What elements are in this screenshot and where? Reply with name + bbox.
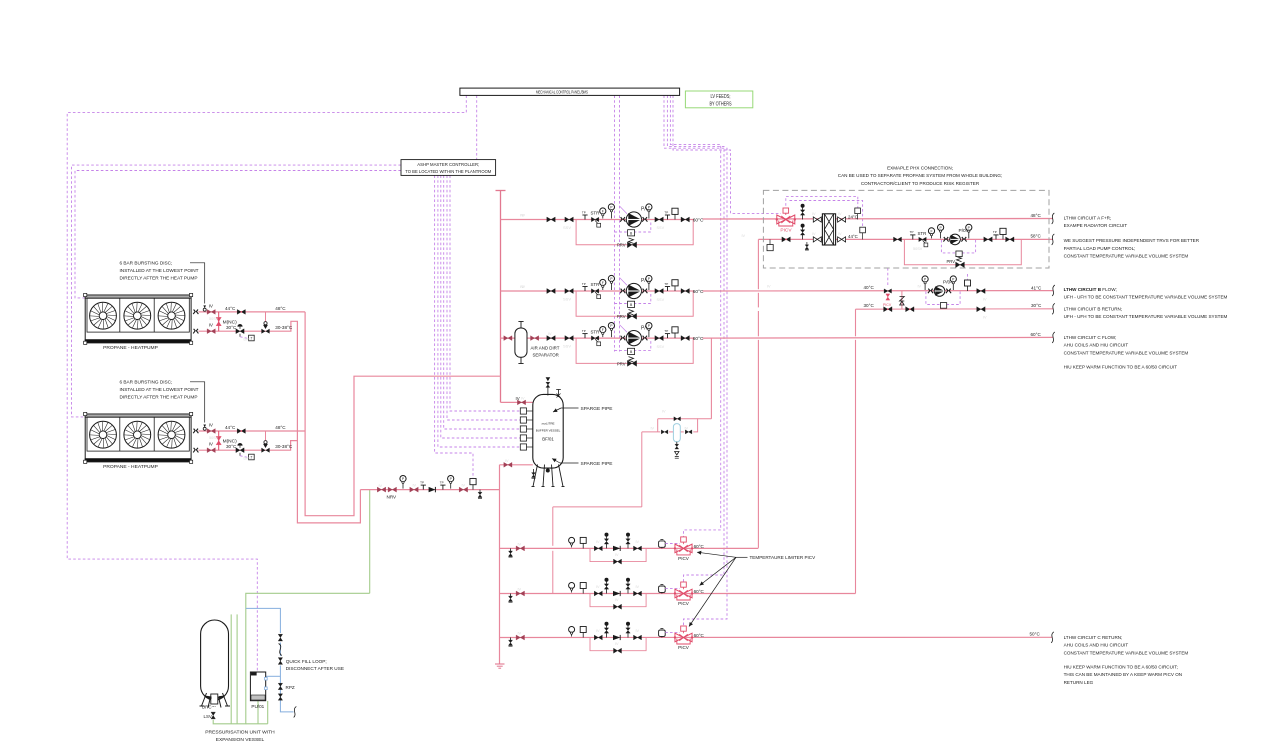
svg-text:24°C: 24°C	[848, 214, 858, 219]
svg-text:60°C: 60°C	[694, 589, 705, 594]
svg-text:EXPANSION VESSEL: EXPANSION VESSEL	[216, 737, 265, 743]
svg-text:IV: IV	[413, 484, 417, 488]
svg-text:40°C: 40°C	[864, 285, 875, 290]
svg-text:50SV: 50SV	[913, 247, 923, 251]
svg-text:STR: STR	[591, 211, 600, 216]
svg-text:CONSTANT TEMPERATURE VARIABLE: CONSTANT TEMPERATURE VARIABLE VOLUME SYS…	[1064, 350, 1189, 355]
svg-text:PICV: PICV	[780, 228, 792, 234]
svg-text:BY OTHERS: BY OTHERS	[710, 101, 733, 107]
svg-text:IV: IV	[636, 629, 640, 633]
svg-text:TEMPERTAURE LIMITER PICV: TEMPERTAURE LIMITER PICV	[750, 555, 817, 560]
svg-text:TP: TP	[664, 329, 668, 333]
svg-text:ASHP MASTER CONTROLLER;: ASHP MASTER CONTROLLER;	[417, 162, 479, 168]
svg-text:SSV: SSV	[563, 297, 571, 302]
svg-text:SEPARATOR: SEPARATOR	[533, 353, 559, 358]
svg-text:IV: IV	[918, 285, 922, 289]
svg-text:30°C: 30°C	[864, 303, 875, 308]
svg-text:DIRECTLY AFTER THE HEAT PUMP: DIRECTLY AFTER THE HEAT PUMP	[120, 276, 198, 281]
svg-text:TP: TP	[440, 480, 444, 484]
svg-text:SSV: SSV	[563, 225, 571, 230]
svg-text:IV: IV	[615, 553, 619, 557]
svg-text:PROPANE - HEATPUMP: PROPANE - HEATPUMP	[103, 345, 158, 351]
svg-text:30°C: 30°C	[226, 444, 237, 449]
svg-text:SPARGE PIPE: SPARGE PIPE	[581, 406, 613, 412]
svg-text:PICV: PICV	[678, 601, 690, 606]
svg-text:PICV: PICV	[678, 556, 690, 561]
svg-text:50SV: 50SV	[209, 317, 219, 321]
svg-text:PARTIAL LOAD PUMP CONTROL;: PARTIAL LOAD PUMP CONTROL;	[1064, 246, 1136, 251]
svg-text:PRESSURISATION UNIT WITH: PRESSURISATION UNIT WITH	[205, 730, 275, 736]
svg-text:IV: IV	[636, 540, 640, 544]
svg-text:STR: STR	[918, 231, 927, 236]
svg-text:TP: TP	[664, 210, 668, 214]
svg-text:CONSTANT TEMPERATURE VARIABLE: CONSTANT TEMPERATURE VARIABLE VOLUME SYS…	[1064, 254, 1189, 259]
svg-text:IV: IV	[812, 212, 816, 216]
svg-text:SSV: SSV	[657, 298, 665, 302]
svg-text:F: F	[602, 281, 604, 285]
svg-text:DIRECTLY AFTER THE HEAT PUMP: DIRECTLY AFTER THE HEAT PUMP	[120, 395, 198, 400]
svg-text:IV: IV	[615, 642, 619, 646]
svg-text:STR: STR	[591, 282, 600, 287]
svg-text:PICV: PICV	[883, 303, 892, 307]
svg-text:60°C: 60°C	[694, 633, 705, 638]
svg-text:F: F	[930, 230, 932, 234]
svg-text:IV: IV	[379, 484, 383, 488]
svg-text:IV: IV	[615, 598, 619, 602]
svg-text:PRV: PRV	[947, 259, 956, 264]
svg-text:HIU KEEP WARM FUNCTION TO BE A: HIU KEEP WARM FUNCTION TO BE A 60/50 CIR…	[1064, 664, 1178, 669]
svg-text:QUICK FILL LOOP;: QUICK FILL LOOP;	[286, 659, 327, 664]
svg-text:IV: IV	[812, 232, 816, 236]
svg-text:IV: IV	[462, 484, 466, 488]
svg-text:DRC: DRC	[202, 704, 212, 709]
svg-text:60°C: 60°C	[693, 336, 704, 342]
svg-text:BF/01: BF/01	[542, 437, 554, 442]
svg-text:48°C: 48°C	[275, 306, 286, 311]
svg-text:48°C: 48°C	[275, 425, 286, 430]
svg-text:PU/01: PU/01	[251, 704, 264, 709]
svg-text:TP: TP	[993, 230, 997, 234]
svg-text:6 BAR BURSTING DISC;: 6 BAR BURSTING DISC;	[120, 261, 173, 266]
svg-text:IV: IV	[838, 232, 842, 236]
svg-text:LTHW CIRCUIT B RETURN;: LTHW CIRCUIT B RETURN;	[1064, 307, 1123, 312]
svg-text:60°C: 60°C	[694, 544, 705, 549]
svg-text:DISCONNECT AFTER USE: DISCONNECT AFTER USE	[286, 666, 344, 671]
svg-text:LV FEEDS;: LV FEEDS;	[711, 94, 731, 100]
svg-text:IV: IV	[522, 214, 526, 218]
svg-text:STR: STR	[591, 329, 600, 334]
svg-text:AHU COILS AND HIU CIRCUIT: AHU COILS AND HIU CIRCUIT	[1064, 643, 1129, 648]
svg-text:CONSTANT TEMPERATURE VARIABLE: CONSTANT TEMPERATURE VARIABLE VOLUME SYS…	[1064, 650, 1189, 655]
svg-text:DRV: DRV	[244, 457, 252, 461]
svg-text:HIU KEEP WARM FUNCTION TO BE A: HIU KEEP WARM FUNCTION TO BE A 60/50 CIR…	[1064, 365, 1178, 370]
svg-text:IV: IV	[518, 542, 522, 546]
svg-text:IV: IV	[767, 285, 771, 289]
svg-text:30-38°C: 30-38°C	[275, 444, 293, 449]
svg-text:SPARGE PIPE: SPARGE PIPE	[581, 461, 613, 467]
svg-text:60°C: 60°C	[693, 217, 704, 223]
svg-text:50SV: 50SV	[209, 436, 219, 440]
svg-text:IV: IV	[521, 396, 525, 400]
svg-text:DRV: DRV	[244, 338, 252, 342]
svg-text:TP: TP	[910, 230, 914, 234]
svg-text:IV: IV	[662, 410, 666, 414]
svg-text:INSTALLED AT THE LOWEST POINT: INSTALLED AT THE LOWEST POINT	[120, 387, 199, 392]
svg-text:LTHW CIRCUIT B FLOW;: LTHW CIRCUIT B FLOW;	[1064, 287, 1117, 292]
svg-text:NRV: NRV	[387, 494, 398, 499]
svg-text:EXMAPLE PHX CONNECTION;: EXMAPLE PHX CONNECTION;	[887, 165, 953, 170]
svg-text:44°C: 44°C	[225, 425, 236, 430]
svg-text:LSV: LSV	[204, 714, 212, 719]
svg-text:xxxLITRE: xxxLITRE	[541, 422, 554, 426]
svg-text:44°C: 44°C	[225, 306, 236, 311]
svg-text:IV: IV	[548, 332, 552, 336]
svg-text:RPZ: RPZ	[286, 685, 295, 690]
svg-text:UFH - UFH TO BE CONSTANT TEMPE: UFH - UFH TO BE CONSTANT TEMPERATURE VAR…	[1064, 314, 1228, 319]
svg-text:RETURN LEG: RETURN LEG	[1064, 680, 1094, 685]
svg-text:IV: IV	[596, 540, 600, 544]
svg-text:TP: TP	[582, 210, 586, 214]
svg-text:PRV: PRV	[617, 361, 626, 366]
svg-text:PRV: PRV	[617, 314, 626, 319]
svg-text:EXAMPE RADIATOR CIRCUIT: EXAMPE RADIATOR CIRCUIT	[1064, 223, 1128, 228]
svg-text:60°C: 60°C	[1031, 332, 1042, 337]
svg-text:TP: TP	[582, 329, 586, 333]
svg-text:IV: IV	[838, 212, 842, 216]
svg-text:AIR AND DIRT: AIR AND DIRT	[531, 345, 560, 350]
svg-text:BUFFER VESSEL: BUFFER VESSEL	[536, 428, 561, 432]
svg-text:PRV: PRV	[617, 243, 626, 248]
svg-text:50°C: 50°C	[1030, 632, 1041, 637]
svg-text:CAN BE USED TO SEPARATE PROPAN: CAN BE USED TO SEPARATE PROPANE SYSTEM F…	[838, 173, 1002, 178]
svg-text:PROPANE - HEATPUMP: PROPANE - HEATPUMP	[103, 464, 158, 470]
svg-text:TO BE LOCATED WITHIN THE PLANT: TO BE LOCATED WITHIN THE PLANTROOM	[405, 169, 491, 175]
svg-text:IV: IV	[518, 632, 522, 636]
svg-text:IV: IV	[651, 427, 655, 431]
svg-text:WE SUGGEST PRESSURE INDEPENDEN: WE SUGGEST PRESSURE INDEPENDENT TRVS FOR…	[1064, 238, 1200, 243]
svg-text:41°C: 41°C	[1031, 285, 1042, 290]
svg-text:IV: IV	[685, 427, 689, 431]
svg-text:IV: IV	[522, 285, 526, 289]
svg-text:LTHW CIRCUIT A F+R;: LTHW CIRCUIT A F+R;	[1064, 216, 1112, 221]
svg-text:6 BAR BURSTING DISC;: 6 BAR BURSTING DISC;	[120, 380, 173, 385]
svg-text:30-38°C: 30-38°C	[275, 325, 293, 330]
svg-text:30°C: 30°C	[1031, 303, 1042, 308]
svg-text:IV: IV	[983, 298, 987, 302]
svg-text:SSV: SSV	[657, 226, 665, 230]
svg-text:TP: TP	[664, 282, 668, 286]
svg-text:LTHW CIRCUIT C FLOW;: LTHW CIRCUIT C FLOW;	[1064, 335, 1117, 340]
svg-text:PICV: PICV	[678, 645, 690, 650]
svg-text:44°C: 44°C	[848, 234, 858, 239]
svg-text:IV: IV	[505, 459, 509, 463]
svg-text:IV: IV	[636, 585, 640, 589]
svg-text:60°C: 60°C	[693, 289, 704, 295]
svg-text:30°C: 30°C	[226, 325, 237, 330]
svg-text:IV: IV	[596, 585, 600, 589]
svg-text:F: F	[602, 210, 604, 214]
svg-text:LTHW CIRCUIT C RETURN;: LTHW CIRCUIT C RETURN;	[1064, 635, 1123, 640]
svg-text:58°C: 58°C	[1031, 234, 1042, 239]
svg-text:UFH - UFH TO BE CONSTANT TEMPE: UFH - UFH TO BE CONSTANT TEMPERATURE VAR…	[1064, 295, 1228, 300]
svg-text:IV: IV	[742, 234, 746, 238]
svg-text:IV: IV	[983, 316, 987, 320]
svg-text:IV: IV	[518, 588, 522, 592]
svg-text:THIS CAN BE MAINTAINED BY A KE: THIS CAN BE MAINTAINED BY A KEEP WARM PI…	[1064, 672, 1183, 677]
svg-text:SSV: SSV	[657, 345, 665, 349]
svg-text:48°C: 48°C	[1031, 213, 1042, 218]
svg-text:INSTALLED AT THE LOWEST POINT: INSTALLED AT THE LOWEST POINT	[120, 268, 199, 273]
svg-text:F: F	[602, 328, 604, 332]
svg-text:IV: IV	[596, 629, 600, 633]
svg-text:TP: TP	[582, 282, 586, 286]
svg-text:AHU COILS AND HIU CIRCUIT: AHU COILS AND HIU CIRCUIT	[1064, 343, 1129, 348]
svg-text:MECHANICAL CONTROL PANEL/BMS: MECHANICAL CONTROL PANEL/BMS	[536, 90, 588, 96]
svg-text:CONTRACTOR/CLIENT TO PRODUCE R: CONTRACTOR/CLIENT TO PRODUCE RISK REGIST…	[861, 181, 980, 186]
svg-text:SSV: SSV	[563, 344, 571, 349]
svg-text:TP: TP	[420, 480, 424, 484]
